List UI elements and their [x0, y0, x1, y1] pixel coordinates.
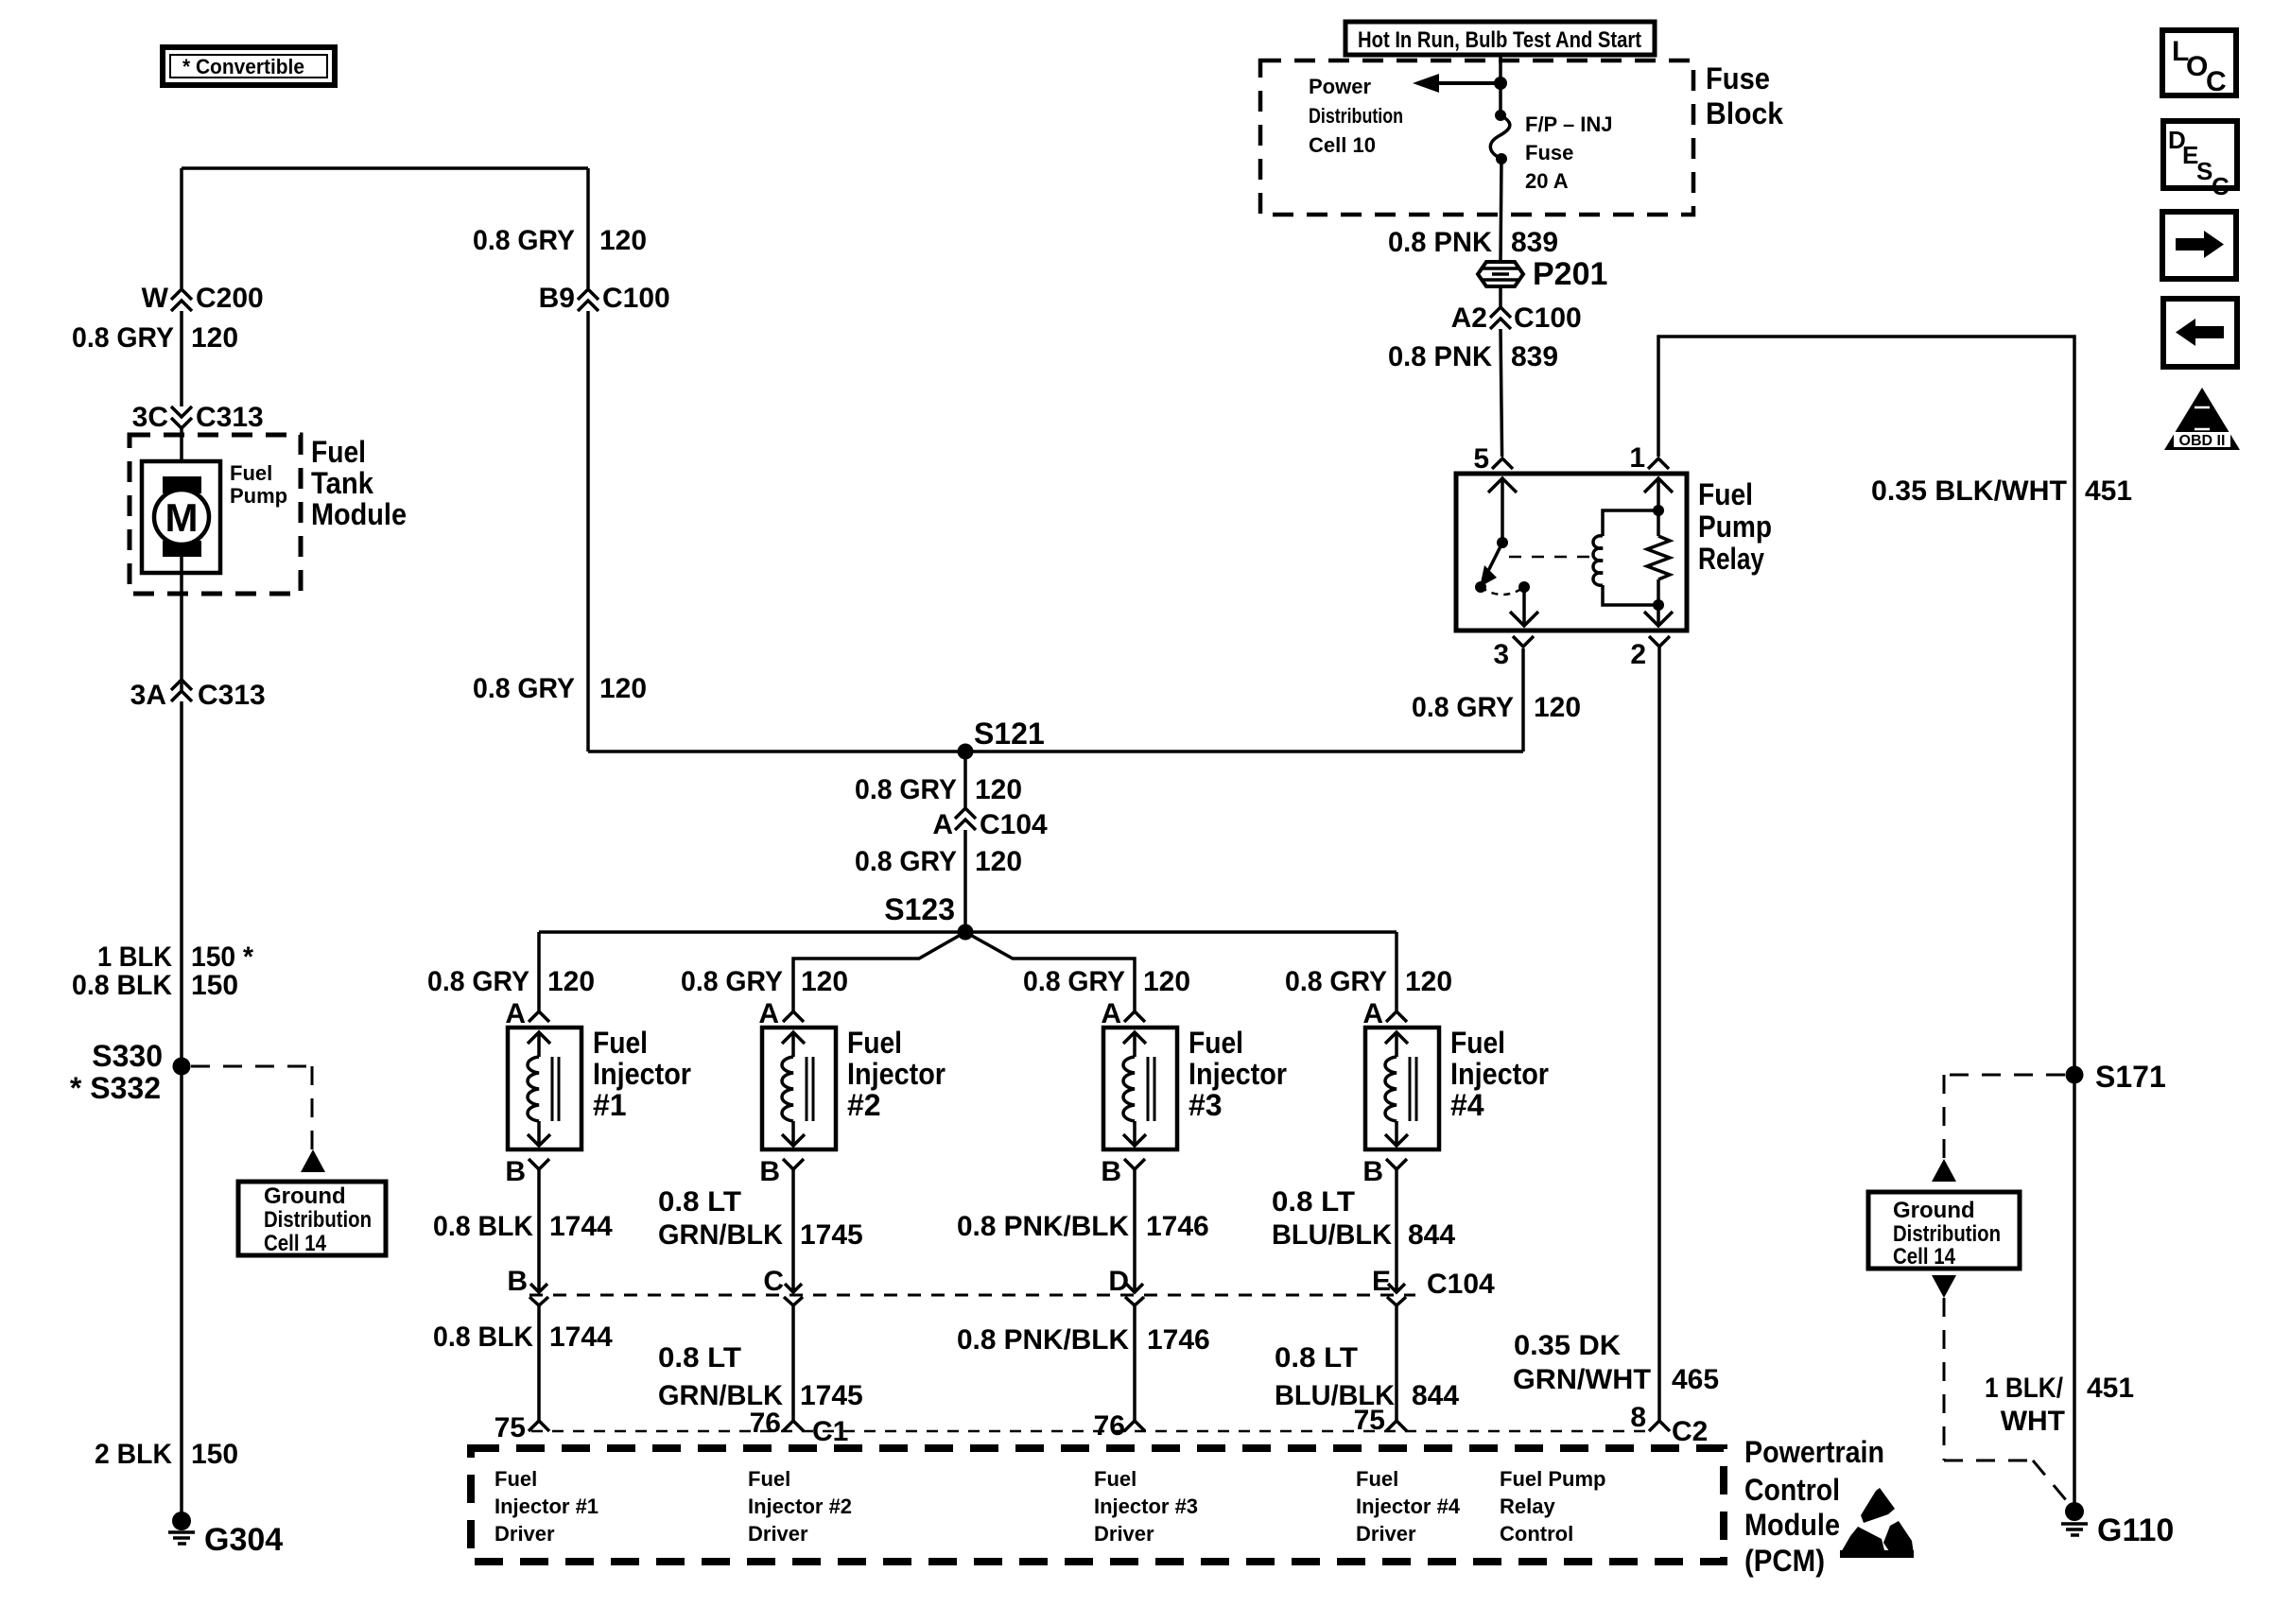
wire: 0.8 BLK 1744 from C104 to PCM pin 75 — [537, 1305, 541, 1421]
svg-text:Fuse: Fuse — [1525, 141, 1573, 164]
label: Fuel Injector #3 — [1189, 1026, 1287, 1122]
svg-text:Driver: Driver — [1094, 1522, 1154, 1546]
label: 0.8 GRY 120 (top right of left section) — [473, 225, 647, 256]
label: 1 BLK/ WHT 451 — [1985, 1373, 2134, 1437]
svg-text:451: 451 — [2085, 475, 2132, 507]
note box: * Convertible — [163, 47, 335, 85]
svg-text:Relay: Relay — [1500, 1494, 1555, 1518]
wire: 0.8 LT BLU/BLK 844 from injector 4 to C104 pin E — [1388, 1169, 1405, 1292]
svg-text:Distribution: Distribution — [264, 1207, 372, 1233]
wire: vertical 0.8 GRY 120 down to connector C100 pin B9 — [586, 168, 590, 288]
svg-text:C: C — [763, 1266, 784, 1297]
svg-text:P201: P201 — [1533, 256, 1607, 292]
svg-text:C313: C313 — [198, 680, 266, 711]
wire: dashed reference from cell 14 down to G110 — [1944, 1298, 2067, 1501]
svg-text:A: A — [932, 809, 953, 840]
svg-text:120: 120 — [1534, 692, 1581, 723]
label: Fuse Block — [1706, 61, 1783, 130]
wire: drop to fuel injector 4 pin A — [1395, 932, 1398, 1011]
svg-text:1745: 1745 — [800, 1380, 863, 1411]
label: Fuel Injector #3 Driver (PCM) — [1094, 1467, 1198, 1546]
legend icon: forward arrow box — [2162, 212, 2236, 279]
fuel injector 2 pin A connector chevron — [758, 998, 804, 1029]
svg-text:75: 75 — [495, 1412, 526, 1443]
svg-text:150: 150 — [191, 1439, 238, 1470]
relay K1 pin 5 terminal (chevron) — [1492, 458, 1513, 469]
ground G304 — [168, 1512, 283, 1558]
wire: 0.8 BLK 1744 from injector 1 to C104 pin B — [530, 1169, 547, 1292]
wire: from C313 down into fuel tank module — [180, 428, 183, 478]
legend icon: DESC box — [2163, 121, 2237, 200]
svg-text:F/P – INJ: F/P – INJ — [1525, 112, 1613, 136]
svg-text:3A: 3A — [130, 680, 166, 711]
svg-text:0.8 GRY: 0.8 GRY — [855, 774, 957, 805]
svg-text:Fuel: Fuel — [748, 1467, 790, 1491]
relay switch common lead from pin 5 (arrow up) — [1488, 478, 1517, 548]
wire: from fuel pump down to connector C313 pin 3A — [180, 557, 183, 690]
svg-text:Power: Power — [1309, 75, 1371, 98]
svg-text:S171: S171 — [2095, 1060, 2166, 1094]
svg-text:465: 465 — [1672, 1364, 1719, 1395]
svg-text:Distribution: Distribution — [1309, 104, 1403, 128]
svg-text:#2: #2 — [847, 1088, 881, 1122]
svg-text:Fuel Pump: Fuel Pump — [1500, 1467, 1605, 1491]
label: 0.8 PNK 839 (above P201) — [1388, 227, 1558, 258]
label: 3A C313 — [130, 680, 266, 711]
wire: 0.8 LT GRN/BLK 1745 from injector 2 to C104 pin C — [785, 1169, 802, 1292]
relay K1 pin 3 terminal (chevron below box) — [1513, 636, 1534, 647]
relay switch movable arm (normally open) — [1475, 543, 1502, 593]
wire: S123 branch to fuel injector 3 pin A — [965, 932, 1135, 1011]
svg-text:1746: 1746 — [1147, 1324, 1210, 1356]
svg-text:0.35 DK: 0.35 DK — [1514, 1330, 1621, 1361]
wire: ground lead from C313 3A down to splice S330 — [180, 701, 183, 1066]
svg-text:Injector: Injector — [593, 1057, 691, 1091]
svg-text:C200: C200 — [196, 283, 264, 314]
label: 0.8 GRY 120 (injector 1 feed) — [427, 966, 595, 997]
wire: from C100 B9 down to S121 run — [586, 311, 590, 752]
legend icon: back arrow box — [2163, 299, 2237, 367]
svg-text:W: W — [142, 283, 169, 314]
svg-text:#1: #1 — [593, 1088, 627, 1122]
fuel injector 4 (solenoid symbol) — [1365, 1028, 1439, 1149]
label: 0.8 GRY 120 (injector 2 feed) — [681, 966, 848, 997]
relay pin 1 internal lead (arrows) — [1644, 478, 1673, 626]
svg-text:C100: C100 — [602, 283, 670, 314]
wire: 0.8 PNK/BLK 1746 from injector 3 to C104 pin D — [1126, 1169, 1143, 1292]
relay internal resistor R1 (zigzag) — [1647, 536, 1670, 579]
svg-text:Fuel: Fuel — [1094, 1467, 1136, 1491]
PCM pin 8 connector C2 (fuel pump relay control) — [1630, 1402, 1708, 1447]
svg-text:A: A — [505, 998, 526, 1029]
splice S121 junction dot — [958, 744, 974, 760]
svg-text:G110: G110 — [2097, 1512, 2174, 1548]
svg-text:844: 844 — [1408, 1219, 1455, 1251]
svg-text:839: 839 — [1511, 227, 1558, 258]
relay K1 pin 2 terminal (chevron below box) — [1649, 636, 1670, 647]
svg-text:Driver: Driver — [748, 1522, 808, 1546]
legend icon: OBD II triangle — [2164, 388, 2240, 450]
label: Fuel Injector #4 — [1450, 1026, 1549, 1122]
svg-text:Injector #2: Injector #2 — [748, 1494, 852, 1518]
label: 0.8 LT GRN/BLK 1745 (upper) — [658, 1186, 863, 1251]
svg-text:C: C — [2212, 172, 2230, 200]
svg-text:Cell 14: Cell 14 — [1893, 1244, 1956, 1270]
svg-text:A: A — [1362, 998, 1383, 1029]
svg-text:0.8 PNK: 0.8 PNK — [1388, 227, 1492, 258]
svg-text:120: 120 — [975, 846, 1022, 877]
svg-text:2 BLK: 2 BLK — [95, 1439, 172, 1470]
label: 0.8 PNK/BLK 1746 (upper) — [957, 1211, 1209, 1242]
fuel injector 3 (solenoid symbol) — [1103, 1028, 1177, 1149]
svg-text:0.8 BLK: 0.8 BLK — [433, 1211, 533, 1242]
label: 0.8 PNK 839 (below C100) — [1388, 341, 1558, 372]
label: 0.8 GRY 120 (C104 to S123) — [855, 846, 1022, 877]
svg-text:Injector: Injector — [847, 1057, 946, 1091]
label: 0.8 GRY 120 (above S121 run, left) — [473, 673, 647, 704]
svg-text:OBD II: OBD II — [2179, 433, 2226, 449]
label: 0.8 GRY 120 (S121 to C104) — [855, 774, 1022, 805]
label: 1 BLK 150 * — [97, 942, 253, 973]
splice S171 junction dot — [2066, 1066, 2084, 1084]
svg-text:0.8 PNK/BLK: 0.8 PNK/BLK — [957, 1324, 1129, 1356]
svg-text:Pump: Pump — [230, 484, 287, 508]
label: S330 * S332 — [70, 1039, 163, 1105]
svg-text:0.8 LT: 0.8 LT — [658, 1186, 741, 1218]
svg-text:1744: 1744 — [549, 1322, 613, 1353]
fuel injector 4 pin A connector chevron — [1362, 998, 1407, 1029]
fuel injector 2 pin B connector chevron — [759, 1156, 804, 1187]
svg-text:G304: G304 — [204, 1522, 283, 1558]
relay coil junction dots on pin 1 branch — [1653, 505, 1664, 611]
svg-text:451: 451 — [2087, 1373, 2134, 1404]
legend icon: LOC box — [2162, 30, 2236, 97]
label: 2 BLK 150 — [95, 1439, 238, 1470]
svg-text:Module: Module — [311, 497, 407, 531]
wire: 0.8 PNK/BLK 1746 from C104 to PCM pin 76 — [1133, 1305, 1136, 1421]
fuel injector 1 pin B connector chevron — [505, 1156, 549, 1187]
svg-text:Powertrain: Powertrain — [1744, 1435, 1884, 1469]
svg-text:Fuel: Fuel — [1356, 1467, 1398, 1491]
svg-text:Fuel: Fuel — [1450, 1026, 1505, 1060]
power feed box: Hot In Run, Bulb Test And Start — [1345, 22, 1655, 55]
svg-text:120: 120 — [1143, 966, 1190, 997]
label: 0.8 BLK 1744 (lower) — [433, 1322, 613, 1353]
connector C104 pin E lower chevron — [1387, 1297, 1406, 1305]
label: 3C C313 — [132, 402, 264, 433]
relay switch contact to pin 3 (arrow down) — [1510, 581, 1538, 626]
svg-text:120: 120 — [599, 225, 647, 256]
svg-text:GRN/WHT: GRN/WHT — [1513, 1364, 1651, 1395]
label: A2 C100 — [1451, 302, 1582, 334]
label: Fuel Injector #4 Driver (PCM) — [1356, 1467, 1461, 1546]
svg-text:Fuel: Fuel — [847, 1026, 902, 1060]
svg-text:120: 120 — [801, 966, 848, 997]
PCM connector C1/C2 dashed pin header line — [531, 1430, 1649, 1433]
svg-text:3: 3 — [1493, 639, 1509, 670]
svg-text:A: A — [758, 998, 779, 1029]
svg-text:C2: C2 — [1672, 1416, 1708, 1447]
svg-text:Distribution: Distribution — [1893, 1221, 2001, 1247]
splice S123 junction dot — [958, 924, 974, 941]
svg-text:C: C — [2206, 66, 2227, 97]
label: Fuel Pump Relay — [1698, 477, 1772, 576]
svg-text:Ground: Ground — [1893, 1198, 1975, 1223]
svg-text:1745: 1745 — [800, 1219, 863, 1251]
label: 0.8 GRY 120 (injector 4 feed) — [1285, 966, 1452, 997]
splice S330 / S332 junction dot — [173, 1058, 191, 1076]
svg-text:Fuse: Fuse — [1706, 61, 1770, 95]
svg-text:Cell 14: Cell 14 — [264, 1231, 327, 1256]
connector C200 pin W (double chevron up) — [171, 289, 192, 311]
svg-text:120: 120 — [547, 966, 595, 997]
label: A C104 — [932, 809, 1048, 840]
label: Fuel Injector #1 — [593, 1026, 691, 1122]
ground G110 — [2061, 1502, 2174, 1548]
PCM pin 75 (injector 1 driver) — [495, 1412, 549, 1443]
label: Fuel Pump (inside module box) — [230, 461, 287, 508]
svg-text:Injector #3: Injector #3 — [1094, 1494, 1198, 1518]
relay K1 pin 1 terminal (chevron) — [1648, 458, 1669, 469]
svg-text:WHT: WHT — [2001, 1406, 2065, 1437]
svg-text:120: 120 — [599, 673, 647, 704]
label: Powertrain Control Module (PCM) — [1744, 1435, 1884, 1578]
label: 0.8 BLK 150 — [72, 970, 238, 1001]
svg-text:Ground: Ground — [264, 1183, 346, 1209]
relay control dashed link — [1509, 556, 1589, 559]
svg-text:5: 5 — [1473, 443, 1489, 475]
fuel tank module dashed box — [130, 435, 301, 594]
svg-text:0.8 GRY: 0.8 GRY — [72, 322, 174, 354]
wire: 0.8 PNK 839 from C100 A2 down to relay pin 5 — [1501, 329, 1502, 457]
label: Power Distribution Cell 10 — [1309, 75, 1403, 157]
svg-text:Cell 10: Cell 10 — [1309, 133, 1376, 157]
wire: 0.8 LT BLU/BLK 844 from C104 to PCM pin 75 — [1395, 1305, 1398, 1421]
connector C104 pin C lower chevron — [784, 1297, 803, 1305]
svg-text:0.8 PNK: 0.8 PNK — [1388, 341, 1492, 372]
connector C104 dashed harness line — [529, 1294, 1415, 1297]
wire: 0.8 LT GRN/BLK 1745 from C104 to PCM pin 76 C1 — [791, 1305, 795, 1421]
wire: S123 horizontal run to injector 1 and injector 4 — [539, 930, 1397, 934]
svg-text:BLU/BLK: BLU/BLK — [1272, 1219, 1392, 1251]
label: 0.8 GRY 120 (left wire) — [72, 322, 238, 354]
connector C104 pin D lower chevron — [1125, 1297, 1144, 1305]
svg-text:Control: Control — [1500, 1522, 1573, 1546]
svg-text:76: 76 — [750, 1408, 781, 1439]
wire: from S330 down to ground G304 — [180, 1066, 183, 1516]
svg-text:0.8 GRY: 0.8 GRY — [1412, 692, 1514, 723]
svg-text:Fuel: Fuel — [230, 461, 272, 485]
svg-text:76: 76 — [1094, 1410, 1125, 1442]
label: W C200 — [142, 283, 264, 314]
svg-text:Injector #1: Injector #1 — [495, 1494, 599, 1518]
connector C104 pin A (double chevron up) — [955, 808, 976, 830]
svg-text:Hot In Run, Bulb Test And Star: Hot In Run, Bulb Test And Start — [1358, 27, 1641, 53]
label: 0.35 BLK/WHT 451 — [1871, 475, 2132, 507]
svg-text:Control: Control — [1744, 1473, 1840, 1507]
label: 0.8 LT GRN/BLK 1745 (lower) — [658, 1342, 863, 1411]
wire: feed into fuse block — [1499, 55, 1502, 115]
svg-text:0.8 LT: 0.8 LT — [1275, 1342, 1358, 1373]
label: Fuel Tank Module — [311, 435, 407, 531]
PCM pin 76 (injector 3 driver) — [1094, 1410, 1145, 1442]
svg-text:#3: #3 — [1189, 1088, 1223, 1122]
wire: from S121 dot down to connector C104 pin A — [963, 752, 967, 808]
svg-text:0.8 GRY: 0.8 GRY — [1285, 966, 1387, 997]
fuel injector 3 pin A connector chevron — [1101, 998, 1145, 1029]
PCM pin 75 (injector 4 driver) — [1354, 1405, 1407, 1436]
fuel injector 3 pin B connector chevron — [1101, 1156, 1145, 1187]
svg-text:0.8 BLK: 0.8 BLK — [72, 970, 172, 1001]
svg-text:#4: #4 — [1450, 1088, 1484, 1122]
svg-text:C104: C104 — [1427, 1269, 1495, 1300]
svg-text:B: B — [505, 1156, 526, 1187]
svg-text:0.8 GRY: 0.8 GRY — [473, 225, 575, 256]
label: 0.8 BLK 1744 (upper) — [433, 1211, 613, 1242]
svg-text:20 A: 20 A — [1525, 169, 1569, 193]
wire: 0.8 GRY 120 between C200 and C313 — [180, 311, 183, 406]
ground distribution cell 14 box (right) — [1868, 1192, 2020, 1270]
svg-text:* Convertible: * Convertible — [182, 55, 304, 78]
svg-text:844: 844 — [1412, 1380, 1459, 1411]
svg-text:Relay: Relay — [1698, 542, 1764, 576]
label: 0.8 LT BLU/BLK 844 (lower) — [1275, 1342, 1459, 1411]
svg-text:0.8 LT: 0.8 LT — [1272, 1186, 1355, 1218]
relay coil L1 — [1593, 510, 1658, 605]
svg-text:1: 1 — [1629, 442, 1645, 474]
svg-text:Fuel: Fuel — [495, 1467, 537, 1491]
connector C313 pin 3A (double chevron up) — [171, 680, 192, 701]
fuel injector 4 pin B connector chevron — [1362, 1156, 1407, 1187]
svg-text:C313: C313 — [196, 402, 264, 433]
connector C100 pin B9 (double chevron up) — [578, 289, 599, 311]
svg-text:1 BLK/: 1 BLK/ — [1985, 1373, 2064, 1404]
wire: from C104 A down to splice S123 — [963, 830, 967, 932]
off-page arrow out of ground distribution (right, pointing down) — [1932, 1275, 1956, 1298]
svg-text:120: 120 — [191, 322, 238, 354]
svg-text:0.8 LT: 0.8 LT — [658, 1342, 741, 1373]
inline connector P201 symbol — [1478, 262, 1523, 286]
label: 0.35 DK GRN/WHT 465 — [1513, 1330, 1719, 1395]
svg-text:0.8 PNK/BLK: 0.8 PNK/BLK — [957, 1211, 1129, 1242]
connector C313 pin 3C (double chevron down) — [171, 406, 192, 428]
svg-text:(PCM): (PCM) — [1744, 1544, 1825, 1578]
fuel injector 1 pin A connector chevron — [505, 998, 549, 1029]
svg-text:Driver: Driver — [495, 1522, 555, 1546]
label: Fuel Injector #2 — [847, 1026, 946, 1122]
svg-text:1 BLK: 1 BLK — [97, 942, 172, 973]
svg-text:B9: B9 — [539, 283, 575, 314]
svg-text:1744: 1744 — [549, 1211, 613, 1242]
fuel pump relay K1 box — [1456, 474, 1687, 631]
svg-text:1746: 1746 — [1146, 1211, 1209, 1242]
fuel injector 1 (solenoid symbol) — [508, 1028, 581, 1149]
connector C104 pin E label — [1372, 1266, 1495, 1300]
fuel pump motor M1 — [142, 461, 220, 573]
svg-text:S: S — [2196, 157, 2212, 185]
svg-text:D: D — [1108, 1266, 1129, 1297]
fuse block dashed box — [1260, 60, 1693, 215]
svg-text:O: O — [2186, 51, 2208, 82]
svg-text:B: B — [1362, 1156, 1383, 1187]
svg-text:Fuel: Fuel — [311, 435, 366, 469]
svg-text:Module: Module — [1744, 1508, 1840, 1542]
svg-text:150 *: 150 * — [191, 942, 253, 973]
svg-text:Fuel: Fuel — [593, 1026, 648, 1060]
svg-text:120: 120 — [975, 774, 1022, 805]
svg-text:C104: C104 — [980, 809, 1048, 840]
wire: 0.8 PNK 839 from fuse to connector P201 — [1501, 159, 1501, 262]
fuse F/P-INJ 20A symbol — [1490, 110, 1509, 164]
label: B9 C100 — [539, 283, 670, 314]
wire: relay pin 3 lead up from S121 run — [1521, 648, 1525, 752]
svg-text:A: A — [1101, 998, 1121, 1029]
node: fuse block feed junction dot — [1494, 77, 1507, 90]
ground distribution cell 14 box (left) — [238, 1182, 386, 1256]
wire: left vertical from top run down to connector C200 — [180, 168, 183, 288]
ESD static sensitive symbol — [1840, 1488, 1914, 1558]
connector C100 pin A2 (double chevron up) — [1490, 307, 1511, 329]
label: 0.8 GRY 120 (relay pin 3 wire) — [1412, 692, 1581, 723]
label: Fuel Injector #2 Driver (PCM) — [748, 1467, 852, 1546]
svg-text:GRN/BLK: GRN/BLK — [658, 1219, 783, 1251]
svg-text:Driver: Driver — [1356, 1522, 1416, 1546]
wire: arrow to power distribution cell 10 — [1413, 74, 1501, 93]
svg-text:0.8 GRY: 0.8 GRY — [1023, 966, 1125, 997]
svg-text:Block: Block — [1706, 96, 1783, 130]
svg-text:120: 120 — [1405, 966, 1452, 997]
svg-text:0.8 GRY: 0.8 GRY — [681, 966, 783, 997]
powertrain control module PCM dashed box — [471, 1448, 1724, 1562]
svg-text:Injector: Injector — [1189, 1057, 1287, 1091]
wire: relay pin 1 up and across to right side (0.35 BLK/WHT 451) — [1658, 337, 2074, 1066]
svg-text:0.8 GRY: 0.8 GRY — [473, 673, 575, 704]
connector C104 pin B lower chevron — [529, 1297, 548, 1305]
PCM pin 76 connector C1 (injector 2 driver) — [750, 1408, 849, 1447]
svg-text:Injector #4: Injector #4 — [1356, 1494, 1461, 1518]
wire: relay pin 2 (fuel pump relay control) down to PCM pin 8 C2 — [1657, 647, 1661, 1420]
off-page arrow into ground distribution (right, pointing up) — [1932, 1159, 1956, 1182]
svg-text:S330: S330 — [92, 1039, 163, 1073]
svg-text:0.8 GRY: 0.8 GRY — [855, 846, 957, 877]
label: 0.8 LT BLU/BLK 844 (upper) — [1272, 1186, 1455, 1251]
wire: dashed reference from S171 to ground distribution cell 14 (right) — [1944, 1075, 2065, 1161]
svg-text:* S332: * S332 — [70, 1071, 161, 1105]
fuel injector 2 (solenoid symbol) — [762, 1028, 836, 1149]
svg-text:Tank: Tank — [311, 466, 373, 500]
svg-text:B: B — [507, 1266, 528, 1297]
svg-text:3C: 3C — [132, 402, 168, 433]
svg-text:8: 8 — [1630, 1402, 1646, 1433]
svg-text:S123: S123 — [884, 892, 955, 926]
svg-text:B: B — [1101, 1156, 1121, 1187]
svg-text:Fuel: Fuel — [1698, 477, 1753, 511]
wire: drop to fuel injector 1 pin A — [537, 932, 541, 1011]
svg-text:Fuel: Fuel — [1189, 1026, 1243, 1060]
wire: S123 branch to fuel injector 2 pin A — [793, 932, 965, 1011]
svg-text:B: B — [759, 1156, 780, 1187]
label: Fuel Injector #1 Driver (PCM) — [495, 1467, 599, 1546]
svg-text:2: 2 — [1630, 639, 1646, 670]
label: Fuel Pump Relay Control (PCM) — [1500, 1467, 1605, 1546]
label: 0.8 PNK/BLK 1746 (lower) — [957, 1324, 1210, 1356]
svg-text:0.35 BLK/WHT: 0.35 BLK/WHT — [1871, 475, 2067, 507]
svg-text:A2: A2 — [1451, 302, 1487, 334]
svg-text:0.8 BLK: 0.8 BLK — [433, 1322, 533, 1353]
label: 0.8 GRY 120 (injector 3 feed) — [1023, 966, 1190, 997]
wire: from S171 down to ground G110 — [2073, 1075, 2076, 1505]
svg-text:Pump: Pump — [1698, 510, 1772, 544]
